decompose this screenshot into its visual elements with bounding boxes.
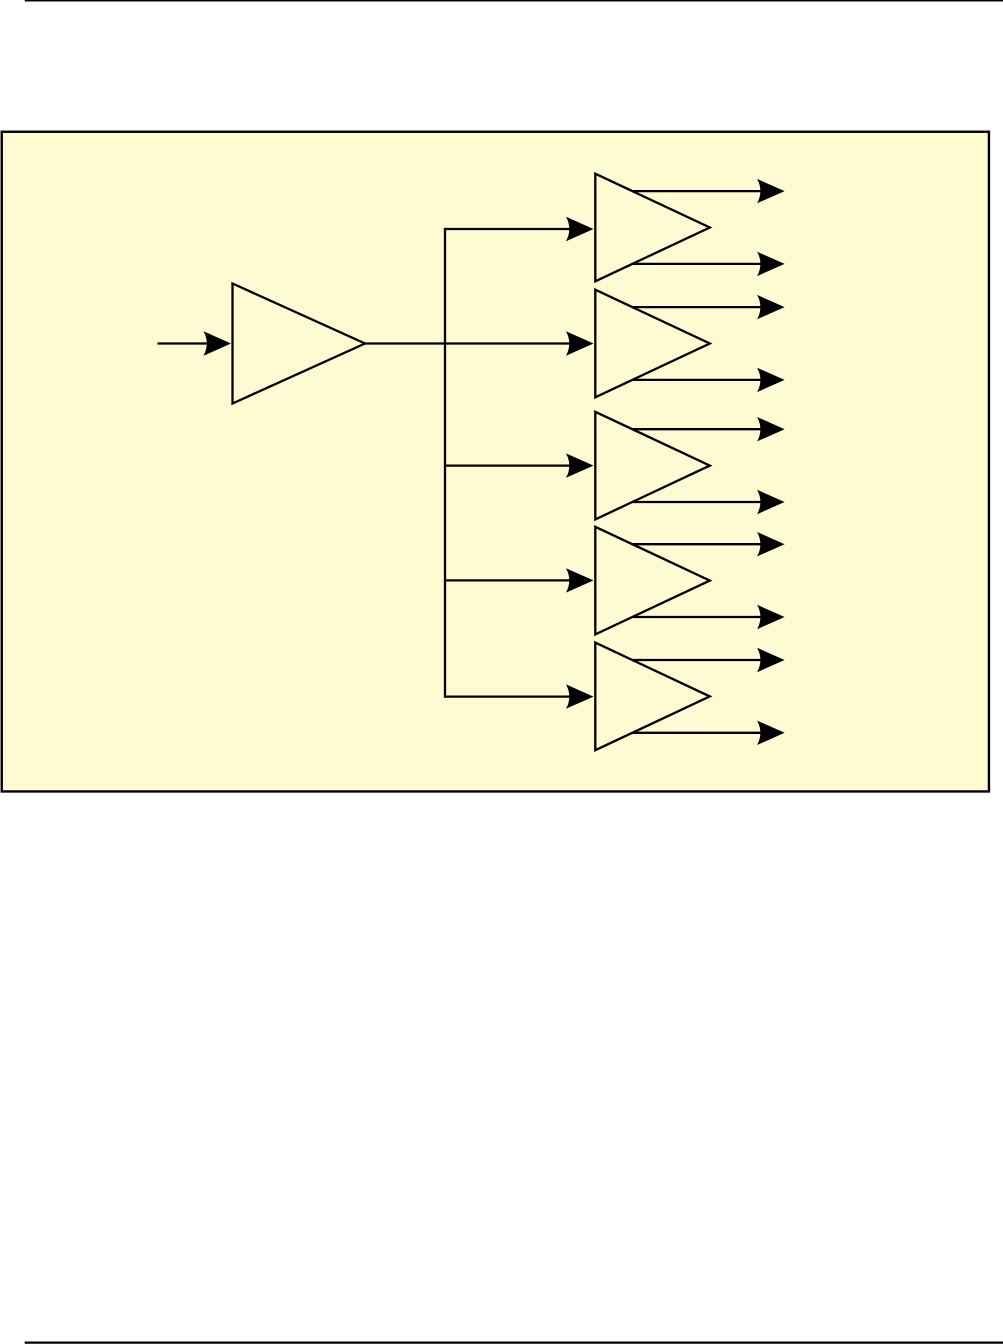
arrowhead into U2 [566,217,594,241]
output wire Q3 [632,379,779,381]
output wire Q9 [632,732,779,734]
wire U1 output to U3 input (crosses bus at node A) [365,342,589,344]
output wire Q1 [632,263,779,265]
bottom horizontal rule [25,1341,1003,1343]
output arrowhead Q9 [757,721,785,745]
output arrowhead Q2 [757,295,785,319]
buffer U6 [595,643,710,751]
branch wire to U5 [445,579,589,581]
branch wire to U4 [445,464,589,466]
buffer U3 [595,290,710,398]
output arrowhead Q4 [757,417,785,441]
output arrowhead Q6 [757,532,785,556]
output wire Q6 [632,543,779,545]
output wire Q5 [632,501,779,503]
output wire Q4 [632,428,779,430]
arrowhead into U6 [566,684,594,708]
arrowhead into U5 [566,568,594,592]
input wire [158,342,210,344]
arrowhead into U3 [566,331,594,355]
input arrowhead into U1 [204,331,232,355]
branch wire to U2 [445,228,589,230]
output arrowhead Q0 [757,179,785,203]
buffer U2 [595,174,710,282]
output arrowhead Q5 [757,490,785,514]
output wire Q8 [632,659,779,661]
arrowhead into U4 [566,453,594,477]
buffer U4 [595,412,710,520]
buffer U1 (input driver) [233,284,366,404]
buffer U5 [595,527,710,635]
vertical bus wire [444,228,446,698]
figure frame (yellow diagram background) [2,132,989,792]
top horizontal rule [25,0,1003,2]
output wire Q0 [632,190,779,192]
output arrowhead Q1 [757,252,785,276]
branch wire to U6 [445,695,589,697]
output wire Q7 [632,616,779,618]
output wire Q2 [632,306,779,308]
output arrowhead Q3 [757,368,785,392]
output arrowhead Q8 [757,648,785,672]
output arrowhead Q7 [757,605,785,629]
